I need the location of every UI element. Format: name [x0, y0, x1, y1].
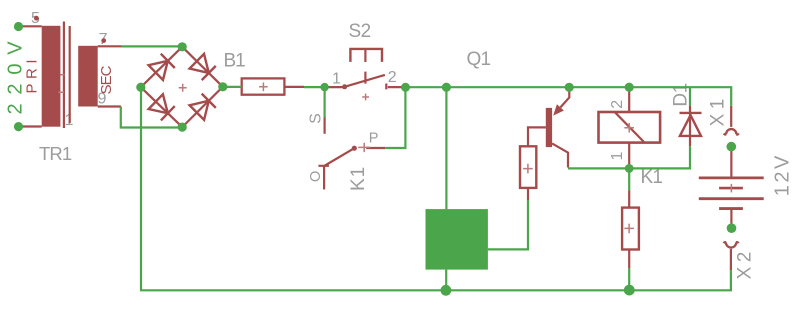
svg-text:X1: X1: [708, 94, 729, 126]
svg-text:P: P: [369, 131, 379, 147]
svg-text:TR1: TR1: [39, 143, 72, 164]
svg-text:2: 2: [388, 69, 397, 86]
svg-text:Q1: Q1: [467, 49, 491, 70]
svg-text:O: O: [308, 171, 324, 182]
svg-text:X2: X2: [735, 247, 756, 279]
svg-text:2: 2: [609, 100, 626, 109]
svg-text:S: S: [308, 113, 325, 124]
svg-text:12V: 12V: [772, 153, 794, 196]
svg-text:K1: K1: [348, 166, 369, 191]
svg-text:B1: B1: [224, 51, 246, 72]
svg-text:1: 1: [332, 71, 341, 88]
svg-text:1: 1: [609, 152, 626, 161]
svg-text:SEC: SEC: [98, 65, 115, 94]
svg-text:S2: S2: [349, 21, 371, 42]
svg-text:PRI: PRI: [23, 55, 40, 94]
svg-text:K1: K1: [641, 167, 663, 188]
